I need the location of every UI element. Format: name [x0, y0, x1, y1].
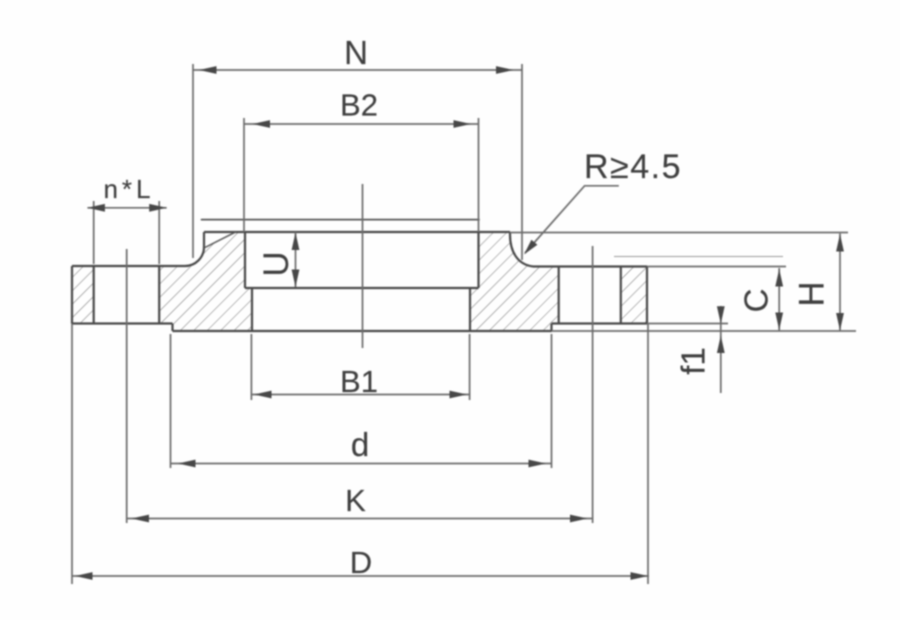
U arrow bottom [292, 270, 300, 288]
K arrow right [570, 515, 588, 523]
svg-text:B2: B2 [340, 88, 378, 123]
hatch fill: left rim section [72, 266, 94, 324]
socket shoulder [245, 287, 479, 289]
B1 arrow right [450, 391, 468, 399]
n*L arrow right [149, 204, 167, 212]
flange OD edge right [646, 267, 648, 324]
flange plate top face left [72, 265, 185, 267]
faint auxiliary line right [614, 256, 783, 258]
C arrow bottom [775, 313, 783, 331]
d arrow right [529, 460, 547, 468]
svg-text:R≥4.5: R≥4.5 [584, 148, 682, 186]
D arrow right [631, 572, 649, 580]
flange OD edge left [71, 266, 73, 324]
n*L arrow left [87, 204, 105, 212]
f1 arrow bottom (points up) [717, 336, 725, 354]
svg-text:C: C [738, 289, 775, 313]
N arrow left [199, 66, 217, 74]
hatch fill: right hub/plate section [470, 232, 559, 331]
svg-text:N: N [344, 34, 368, 71]
U dimension line [295, 232, 297, 287]
shared bottom extension line (H C f1) [552, 330, 857, 332]
hatch fill: right rim section [621, 267, 647, 324]
d extension line left [170, 334, 172, 468]
H arrow bottom [836, 313, 844, 331]
svg-text:f1: f1 [675, 347, 712, 375]
H arrow top [836, 234, 844, 252]
B2 extension line left [243, 118, 245, 232]
K arrow left [132, 515, 150, 523]
bolt hole centerline right [592, 246, 594, 523]
B2 arrow left [253, 120, 271, 128]
hub top face [204, 231, 510, 233]
B1 extension line left [250, 334, 252, 400]
n*L extension line left [93, 201, 95, 264]
B2 arrow right [454, 120, 472, 128]
flange underside right [552, 322, 648, 324]
centerline of bore [362, 184, 364, 348]
N arrow right [496, 66, 514, 74]
raised face bottom [173, 330, 552, 332]
D arrow left [75, 572, 93, 580]
f1 dimension line [720, 306, 722, 393]
B1 arrow left [254, 391, 272, 399]
weld bevel edge on left hub [205, 232, 236, 248]
n*L dimension line [87, 207, 166, 209]
d dimension line [171, 463, 552, 465]
D dimension line [72, 575, 649, 577]
N extension line right [521, 64, 523, 260]
N dimension line [193, 69, 522, 71]
R leader arrowhead [524, 240, 537, 255]
raised face step left [171, 324, 173, 332]
svg-text:B1: B1 [340, 364, 378, 399]
N extension line left [192, 64, 194, 258]
D extension line right [647, 324, 649, 585]
hatch fill: left hub/plate section [159, 232, 252, 331]
B1 extension line right [469, 334, 471, 400]
flange plate top face right [533, 265, 647, 267]
R leader line [525, 186, 619, 253]
n*L extension line right [158, 201, 160, 264]
B2 extension line right [478, 118, 480, 232]
bore B1 wall left [251, 288, 253, 331]
f1 top extension line [647, 323, 728, 325]
pipe stub top line [202, 219, 480, 221]
raised face step right [550, 324, 552, 332]
svg-text:n*L: n*L [103, 174, 154, 204]
bore B1 wall right [469, 288, 471, 331]
hub outer wall + fillet right (R fillet) [510, 232, 533, 267]
f1 arrow top (points down) [717, 306, 725, 324]
d arrow left [178, 460, 196, 468]
svg-text:K: K [345, 483, 366, 518]
D extension line left [71, 324, 73, 585]
svg-text:D: D [350, 545, 372, 580]
C arrow top [775, 269, 783, 287]
C dimension line [778, 268, 780, 331]
B1 dimension line [251, 394, 469, 396]
C top extension line [647, 266, 786, 268]
bore B2 wall right [477, 232, 479, 288]
flange underside left [72, 322, 173, 324]
bolt hole centerline left [126, 249, 128, 523]
H top extension line [510, 232, 848, 234]
d extension line right [551, 334, 553, 468]
B2 dimension line [244, 123, 479, 125]
H dimension line [839, 234, 841, 332]
svg-text:U: U [257, 251, 296, 276]
bolt hole right wall 1 [558, 267, 560, 324]
K dimension line [127, 518, 593, 520]
svg-text:H: H [792, 281, 831, 306]
bore B2 wall left [244, 232, 246, 288]
bolt hole left wall 2 [158, 266, 160, 324]
bolt hole left wall 1 [93, 266, 95, 324]
bolt hole right wall 2 [620, 267, 622, 324]
svg-text:d: d [351, 426, 369, 463]
U arrow top [292, 233, 300, 251]
hub outer wall + fillet left [185, 232, 204, 266]
